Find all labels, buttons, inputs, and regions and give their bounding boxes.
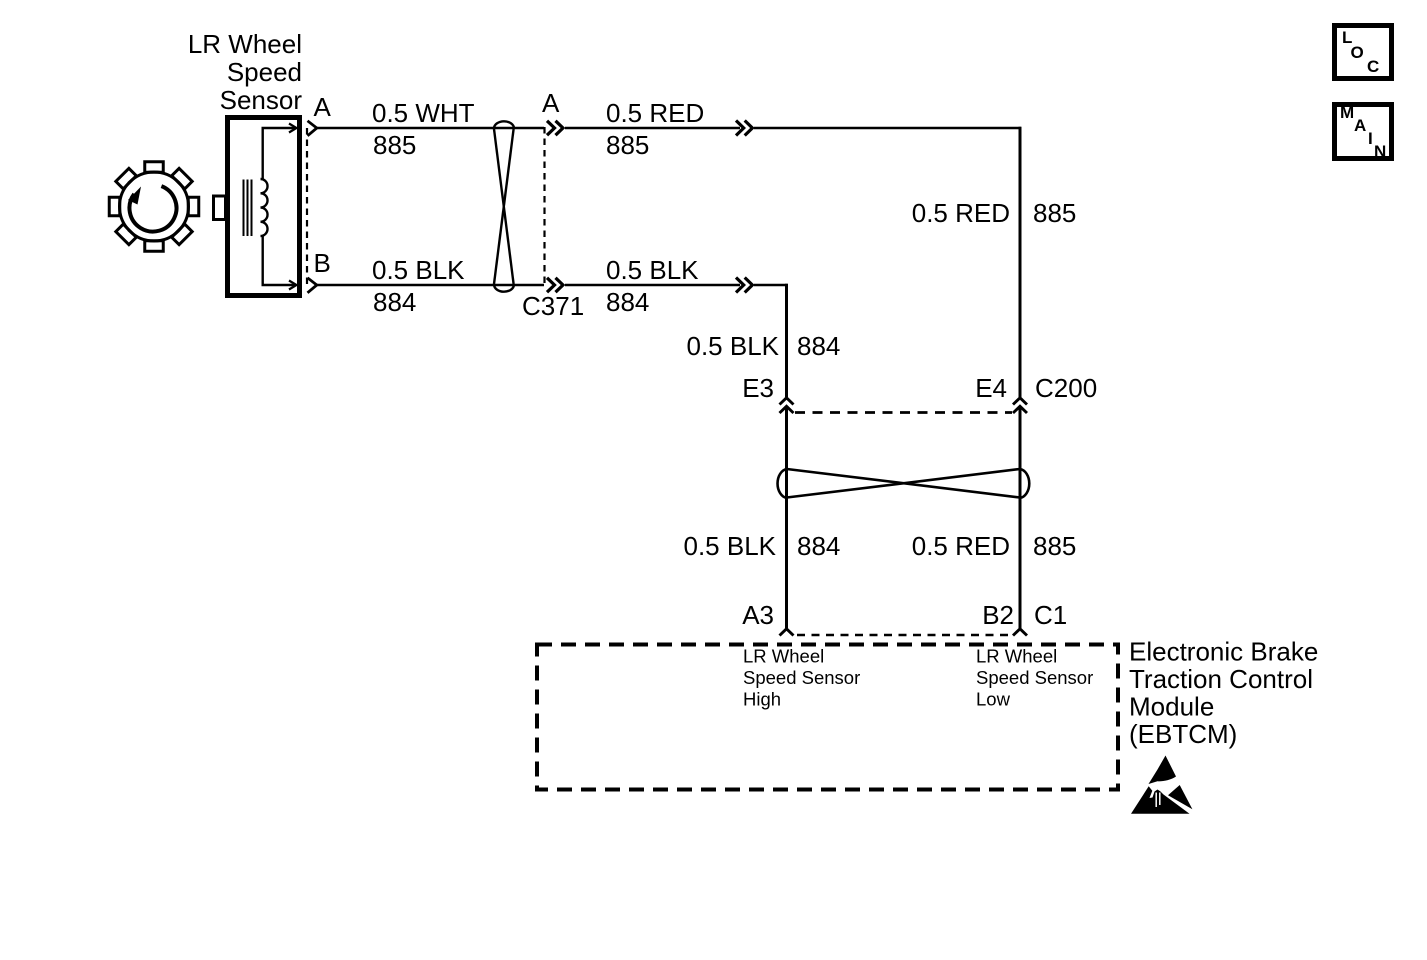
svg-text:C200: C200 — [1035, 373, 1097, 403]
svg-text:0.5 BLK: 0.5 BLK — [372, 255, 465, 285]
svg-text:A: A — [542, 88, 560, 118]
svg-text:0.5 BLK: 0.5 BLK — [606, 255, 699, 285]
svg-text:0.5 RED: 0.5 RED — [912, 531, 1010, 561]
svg-text:884: 884 — [606, 287, 649, 317]
svg-text:Low: Low — [976, 689, 1011, 710]
svg-text:Electronic Brake: Electronic Brake — [1129, 637, 1318, 667]
svg-text:LR Wheel: LR Wheel — [743, 646, 824, 667]
svg-text:LR Wheel: LR Wheel — [188, 29, 302, 59]
svg-text:Speed: Speed — [227, 57, 302, 87]
svg-text:A: A — [314, 92, 332, 122]
twisted pair symbol at sensor harness — [494, 121, 514, 291]
inductor coil winding — [261, 179, 268, 236]
svg-text:O: O — [1351, 43, 1364, 62]
wire 884 BLK vertical — [785, 284, 788, 628]
inductor coil core — [244, 180, 252, 237]
twisted pair symbol body harness — [778, 469, 1030, 498]
svg-text:885: 885 — [606, 130, 649, 160]
svg-text:E3: E3 — [742, 373, 774, 403]
svg-text:885: 885 — [373, 130, 416, 160]
svg-text:M: M — [1340, 103, 1354, 122]
EBTCM module dashed box — [537, 645, 1118, 790]
C200 pin E3 chevrons — [780, 398, 794, 405]
svg-text:N: N — [1374, 142, 1386, 161]
connector C200 dashed line — [795, 411, 1012, 414]
svg-text:C: C — [1367, 57, 1379, 76]
svg-text:0.5 BLK: 0.5 BLK — [683, 531, 776, 561]
connector C371 dashed line — [543, 127, 545, 286]
svg-text:B: B — [314, 248, 331, 278]
wire 885 RED vertical — [1019, 127, 1022, 628]
svg-text:High: High — [743, 689, 781, 710]
C371 chevrons wire A — [547, 121, 563, 135]
wire B horizontal (circuit 884) — [317, 284, 788, 287]
ESD sensitive device symbol — [1131, 756, 1192, 814]
svg-text:0.5 BLK: 0.5 BLK — [686, 331, 779, 361]
svg-text:885: 885 — [1033, 531, 1076, 561]
sensor nub — [214, 196, 226, 220]
C200 pin E4 chevrons — [1013, 398, 1027, 405]
pin B2 chevron — [1013, 629, 1027, 636]
svg-text:C1: C1 — [1034, 600, 1067, 630]
svg-text:A: A — [1354, 116, 1366, 135]
C371 chevrons wire B — [547, 278, 563, 292]
svg-text:A3: A3 — [742, 600, 774, 630]
svg-text:B2: B2 — [982, 600, 1014, 630]
inline marker >> on wire B — [736, 278, 752, 293]
wire A horizontal (circuit 885) — [317, 127, 1021, 130]
svg-text:C371: C371 — [522, 291, 584, 321]
pins A3-B2 dashed line — [797, 634, 1010, 636]
sensor connector dashed line — [306, 128, 308, 285]
svg-text:885: 885 — [1033, 198, 1076, 228]
svg-text:Speed Sensor: Speed Sensor — [976, 667, 1093, 688]
svg-text:Sensor: Sensor — [220, 85, 303, 115]
pin A3 chevron — [780, 629, 794, 636]
svg-text:0.5 RED: 0.5 RED — [606, 98, 704, 128]
svg-text:0.5 WHT: 0.5 WHT — [372, 98, 475, 128]
tone wheel (toothed reluctor ring with rotation arrow) — [109, 162, 199, 252]
svg-text:(EBTCM): (EBTCM) — [1129, 719, 1237, 749]
pin A chevron — [308, 121, 317, 136]
svg-text:Traction Control: Traction Control — [1129, 664, 1313, 694]
LOC reference box — [1335, 26, 1392, 79]
svg-text:884: 884 — [373, 287, 416, 317]
svg-text:0.5 RED: 0.5 RED — [912, 198, 1010, 228]
svg-text:884: 884 — [797, 531, 840, 561]
LR wheel speed sensor box — [228, 118, 300, 296]
svg-text:E4: E4 — [975, 373, 1007, 403]
pin B chevron — [308, 278, 317, 293]
svg-text:Speed Sensor: Speed Sensor — [743, 667, 860, 688]
sensor internal lead top — [263, 128, 296, 180]
sensor internal lead bottom — [263, 235, 296, 285]
inline marker >> on wire A — [736, 121, 752, 136]
svg-text:I: I — [1368, 129, 1373, 148]
svg-text:LR Wheel: LR Wheel — [976, 646, 1057, 667]
svg-text:Module: Module — [1129, 692, 1214, 722]
svg-text:884: 884 — [797, 331, 840, 361]
MAIN reference box — [1335, 105, 1392, 159]
